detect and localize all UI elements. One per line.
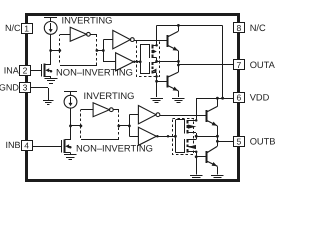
svg-text:NON–INVERTING: NON–INVERTING [56,67,133,78]
svg-text:GND: GND [0,82,19,92]
svg-text:4: 4 [24,140,29,150]
svg-text:2: 2 [23,66,28,76]
svg-text:8: 8 [237,23,242,33]
svg-text:VDD: VDD [250,93,270,103]
svg-text:6: 6 [237,93,242,103]
svg-text:N/C: N/C [250,23,266,33]
svg-text:NON–INVERTING: NON–INVERTING [76,142,153,153]
svg-text:OUTA: OUTA [250,60,276,70]
svg-text:3: 3 [23,83,28,93]
svg-text:7: 7 [237,60,242,70]
svg-text:1: 1 [24,23,29,33]
svg-text:N/C: N/C [5,23,21,33]
svg-text:INVERTING: INVERTING [84,90,135,101]
svg-text:INA: INA [4,66,19,76]
svg-text:INVERTING: INVERTING [62,14,113,25]
svg-text:5: 5 [237,136,242,146]
svg-text:INB: INB [5,140,20,150]
svg-text:OUTB: OUTB [250,137,276,147]
